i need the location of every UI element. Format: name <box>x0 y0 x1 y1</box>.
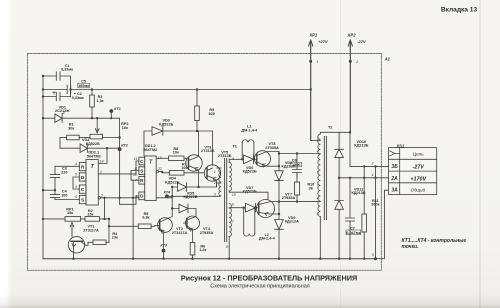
wire VD7 base row y=207.7 <box>229 207 256 209</box>
svg-text:820: 820 <box>209 112 215 116</box>
svg-text:9: 9 <box>135 194 137 198</box>
test point KT1 <box>109 109 113 119</box>
resistor R6 <box>190 243 195 259</box>
svg-text:1,2к: 1,2к <box>199 248 206 252</box>
rectifier line VD10/VD11 x=339.1 <box>338 132 340 258</box>
pin 12 inverted output DD1.2 <box>156 170 169 172</box>
svg-text:220: 220 <box>61 170 67 174</box>
capacitor C6 <box>293 154 302 178</box>
wire ground bus <box>43 258 376 260</box>
svg-text:ХS1: ХS1 <box>395 144 405 149</box>
svg-text:+27V: +27V <box>318 39 328 44</box>
connector XS1 table <box>389 148 437 195</box>
svg-text:КД522Б: КД522Б <box>183 195 197 199</box>
transistor VT8 2T935A <box>255 151 280 167</box>
svg-text:15к: 15к <box>67 211 73 215</box>
wire VD4 row y=187 <box>172 183 219 187</box>
diode VD8 <box>275 171 284 181</box>
svg-text:6: 6 <box>75 195 77 199</box>
svg-text:КТ2: КТ2 <box>121 143 127 147</box>
svg-text:4: 4 <box>232 157 234 161</box>
svg-text:15к: 15к <box>87 212 93 216</box>
potentiometer RP2 body <box>90 134 120 139</box>
svg-text:2С212Ж: 2С212Ж <box>55 109 70 113</box>
svg-text:Вкладка 13: Вкладка 13 <box>441 7 478 14</box>
svg-text:2А: 2А <box>390 176 398 182</box>
resistor R3 <box>90 90 95 119</box>
svg-text:КД522Б: КД522Б <box>86 142 100 146</box>
wire main +27V rail y=89.5 <box>43 89 311 91</box>
wire clock row y=131 <box>144 131 213 156</box>
svg-text:2Т313Б: 2Т313Б <box>201 149 215 153</box>
svg-text:ДМ-2,4-4: ДМ-2,4-4 <box>241 128 258 132</box>
svg-text:Схема электрическая принципиал: Схема электрическая принципиальная <box>210 284 310 290</box>
svg-text:4: 4 <box>317 197 319 201</box>
capacitor C5 <box>67 85 71 93</box>
svg-text:3: 3 <box>372 162 374 166</box>
capacitor C2 polarized <box>43 91 71 101</box>
svg-text:Рисунок 12 - ПРЕОБРАЗОВАТЕЛЬ Н: Рисунок 12 - ПРЕОБРАЗОВАТЕЛЬ НАПРЯЖЕНИЯ <box>181 273 358 282</box>
capacitor C1 <box>43 72 71 80</box>
svg-text:ХР1: ХР1 <box>308 33 318 38</box>
svg-text:КД522Б: КД522Б <box>159 122 173 126</box>
svg-text:10: 10 <box>232 193 236 197</box>
svg-text:3: 3 <box>214 193 216 197</box>
svg-text:2Т935А: 2Т935А <box>282 196 296 200</box>
svg-text:0,33мк: 0,33мк <box>72 96 84 100</box>
diode VD9 <box>275 220 284 230</box>
transformer T1 secondary upper <box>229 159 268 199</box>
flip-flop DD1.1 564TM2 <box>79 160 98 205</box>
resistor R8 <box>169 156 187 161</box>
pin 14 wire DD1.1 <box>98 148 107 163</box>
svg-text:8: 8 <box>135 167 137 171</box>
diode VD3 <box>152 127 163 136</box>
svg-text:+170V: +170V <box>410 176 426 182</box>
resistor R9 <box>195 90 200 132</box>
wire pin13 to R8 row <box>156 157 168 159</box>
wire RP1/R2 row y=218.9 <box>43 218 109 220</box>
svg-text:КД213Б: КД213Б <box>352 191 366 195</box>
junction XP1 rail <box>310 88 312 90</box>
svg-text:1,3к: 1,3к <box>96 99 103 103</box>
svg-text:10: 10 <box>133 173 137 177</box>
svg-text:1500: 1500 <box>292 163 300 167</box>
svg-text:5: 5 <box>317 212 319 216</box>
svg-text:8: 8 <box>226 245 228 249</box>
svg-text:КД212А: КД212А <box>285 220 299 224</box>
test point KT3 <box>162 249 166 253</box>
svg-text:100мк: 100мк <box>78 84 89 88</box>
wire R input DD1.1 to C3 <box>55 165 79 167</box>
wire D pin9 loop DD1.2 <box>120 196 139 204</box>
svg-text:ХР2: ХР2 <box>347 33 357 38</box>
svg-text:10к: 10к <box>122 126 128 130</box>
svg-text:3: 3 <box>317 171 319 175</box>
svg-text:564ТМ2: 564ТМ2 <box>143 148 157 152</box>
svg-text:2Т313Б: 2Т313Б <box>218 154 232 158</box>
transistor VT5 2T313B <box>204 131 220 187</box>
transistor VT2 2T3117A <box>155 217 173 259</box>
capacitor C3 <box>50 166 59 194</box>
svg-text:12: 12 <box>158 167 162 171</box>
wire left bus x=43 <box>42 76 44 259</box>
test point KT4 row y=196.3 <box>165 194 219 198</box>
svg-text:КТ4: КТ4 <box>164 191 170 195</box>
transformer T1 core <box>225 159 227 242</box>
wire output -27V (pin 3) <box>339 132 389 166</box>
diode VD7 <box>246 203 256 212</box>
wire XS1 common row stub <box>376 190 389 259</box>
svg-text:2Т3117А: 2Т3117А <box>172 231 188 235</box>
svg-text:КТ1.....КТ4 - контрольные: КТ1.....КТ4 - контрольные <box>402 238 467 244</box>
svg-text:0,047мк: 0,047мк <box>346 231 360 235</box>
svg-text:3А: 3А <box>391 188 398 194</box>
potentiometer RP1 <box>65 217 81 237</box>
wire pin7 ground drop x=133.1 <box>132 180 134 259</box>
svg-text:2Т935А: 2Т935А <box>265 146 279 150</box>
svg-text:1: 1 <box>214 170 216 174</box>
svg-text:КД522Б: КД522Б <box>243 190 257 194</box>
svg-text:100: 100 <box>61 193 67 197</box>
pin 2 inverted output DD1.1 <box>98 197 172 199</box>
wire C1 to node x=70.5 <box>70 76 72 97</box>
svg-text:14: 14 <box>100 160 104 164</box>
dashed enclosure A1 <box>28 54 382 271</box>
diode VD11 <box>335 201 344 210</box>
svg-text:6: 6 <box>232 203 234 207</box>
svg-text:Общий: Общий <box>411 187 426 192</box>
rail x=279 with damper diodes <box>278 152 280 259</box>
svg-text:13: 13 <box>158 156 162 160</box>
inductor L2 parallel loop <box>244 208 255 236</box>
diode VD5 <box>172 204 196 216</box>
transistor VT1 2T3117A <box>68 237 88 259</box>
svg-text:КТ3: КТ3 <box>160 243 166 247</box>
svg-text:4: 4 <box>372 173 374 177</box>
svg-text:-27V: -27V <box>357 39 366 44</box>
transformer T2 core <box>324 137 326 220</box>
svg-text:точки.: точки. <box>402 244 419 250</box>
node 1 junction on XP1 <box>309 60 312 63</box>
resistor R7 <box>169 171 205 176</box>
wire zener row y=118.2 <box>43 117 120 119</box>
wire x=172.2 vertical KT4 to VT2 <box>171 187 173 217</box>
svg-text:10к: 10к <box>181 166 187 170</box>
capacitor C7 <box>346 178 355 259</box>
flip-flop DD1.2 564TM2 <box>139 156 156 200</box>
svg-text:КТ1: КТ1 <box>114 107 120 111</box>
resistor R1 <box>60 135 90 140</box>
svg-text:30к: 30к <box>68 126 74 130</box>
test point KT2 on vertical x=119.6 <box>118 118 122 204</box>
svg-text:10к: 10к <box>173 151 179 155</box>
transistor VT7 2T935A <box>257 200 280 218</box>
svg-text:S: S <box>81 197 84 202</box>
wire x=60 corner R1 to VD2 row <box>59 138 61 149</box>
diode VD10 <box>335 149 344 157</box>
svg-text:2Т3117А: 2Т3117А <box>83 228 99 232</box>
diode VD4 <box>178 183 191 192</box>
svg-text:Цепь: Цепь <box>413 152 425 157</box>
svg-text:3: 3 <box>75 185 77 189</box>
svg-text:1: 1 <box>100 170 102 174</box>
svg-text:23к: 23к <box>112 235 118 239</box>
svg-text:КД522Б: КД522Б <box>243 170 257 174</box>
svg-text:ДМ-2,4-4: ДМ-2,4-4 <box>259 237 276 241</box>
wire snubber top y=153.5 <box>279 153 320 155</box>
wire VD6 base row y=159.3 <box>229 158 255 160</box>
svg-text:1: 1 <box>317 137 319 141</box>
svg-text:36: 36 <box>309 186 313 190</box>
svg-text:2: 2 <box>100 194 103 198</box>
inductor L1 parallel loop <box>242 140 254 160</box>
wire bus tap to C3/C4 chain <box>43 189 55 191</box>
svg-text:2: 2 <box>213 181 216 185</box>
svg-text:5: 5 <box>372 253 374 257</box>
svg-text:А1: А1 <box>384 56 391 61</box>
svg-text:0,33мк: 0,33мк <box>61 68 73 72</box>
wire x=109 down to R5/R4 rows <box>108 219 110 242</box>
wire S,R stubs DD1.2 <box>131 171 139 181</box>
svg-text:7: 7 <box>232 220 234 224</box>
svg-text:КД522Б: КД522Б <box>165 180 179 184</box>
svg-text:Т1: Т1 <box>232 144 236 148</box>
wire common return (pin 5) <box>375 166 377 258</box>
svg-text:7: 7 <box>317 184 319 188</box>
svg-text:7: 7 <box>135 179 137 183</box>
capacitor C4 <box>50 195 59 200</box>
svg-text:4: 4 <box>75 162 77 166</box>
potentiometer RP2 wiper drop <box>95 118 99 133</box>
wire S input DD1.1 to C4 <box>55 199 79 201</box>
pin 1 wire DD1.1 to DD1.2 C input <box>98 161 139 174</box>
wire output +170V (pin 4) <box>339 177 389 179</box>
svg-text:3Б: 3Б <box>391 164 398 170</box>
resistor R10 <box>294 173 299 202</box>
diode VD6 <box>244 155 254 164</box>
transistor VT3 2T313B <box>186 131 202 187</box>
svg-text:1: 1 <box>316 60 318 64</box>
svg-text:5: 5 <box>75 173 77 177</box>
svg-text:S: S <box>140 168 143 173</box>
svg-text:300к: 300к <box>371 203 379 207</box>
resistor R11 <box>362 166 367 258</box>
svg-text:2: 2 <box>316 149 319 153</box>
resistor R4 <box>88 240 109 245</box>
junction dots C rows <box>42 88 44 90</box>
svg-text:-27V: -27V <box>413 165 425 171</box>
svg-text:Т2: Т2 <box>328 126 332 130</box>
wire snubber bottom y=201.6 <box>279 201 320 203</box>
wire D-C loop DD1.1 <box>73 177 79 189</box>
node 2 junction on XP2 <box>349 60 352 63</box>
svg-text:6,8к: 6,8к <box>142 216 149 220</box>
svg-text:2Т935А: 2Т935А <box>200 231 214 235</box>
transistor VT4 2T935A <box>184 216 200 243</box>
diode VD2 <box>60 144 120 153</box>
svg-text:11: 11 <box>134 157 138 161</box>
transformer T1 primary winding <box>217 168 222 196</box>
connector XP1 +27V arrow <box>309 40 313 141</box>
svg-text:564ТМ2: 564ТМ2 <box>87 154 101 158</box>
resistor R5 <box>109 224 155 229</box>
transformer T2 winding <box>311 132 339 258</box>
svg-text:2: 2 <box>355 60 358 64</box>
transformer T1 secondary lower <box>229 204 231 259</box>
svg-text:КД213Б: КД213Б <box>354 143 368 147</box>
resistor R2 <box>85 217 100 222</box>
connector XP2 -27V arrow <box>348 40 352 132</box>
zener diode VD1 <box>55 113 64 123</box>
wire x=104.5 pin2 to R2 row <box>104 198 106 219</box>
